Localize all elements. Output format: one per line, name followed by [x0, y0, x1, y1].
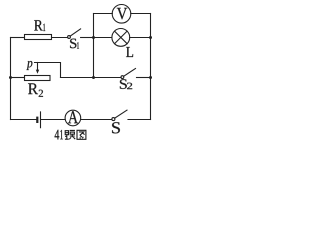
switch S1 pivot — [68, 36, 71, 39]
label V (voltmeter) — [117, 8, 127, 19]
wire battery negative to R1 (top-left horizontal) — [11, 37, 25, 39]
wire battery to ammeter — [41, 119, 66, 121]
lamp L circle — [112, 29, 130, 47]
label S (bottom switch) — [112, 122, 120, 133]
wire rheostat tap: arrow to step corner — [35, 63, 61, 78]
switch S pivot — [112, 118, 115, 121]
label L (lamp) — [126, 47, 133, 57]
node lamp-right junction dot — [149, 36, 152, 39]
lamp L cross — [115, 31, 128, 44]
label A (ammeter) — [68, 111, 78, 123]
battery BT1 long plate — [40, 112, 42, 128]
wire top branch left — [94, 13, 113, 15]
resistor R1 — [25, 35, 52, 40]
caption digit 4 — [55, 130, 60, 140]
wire S1 to node A — [81, 37, 94, 39]
wire node A down to node B — [93, 38, 95, 78]
rheostat R2 body — [25, 76, 51, 81]
caption glyph ti (题) — [65, 130, 75, 139]
ammeter U2 circle — [65, 110, 81, 126]
wire bottom: battery left — [11, 119, 37, 121]
rheostat slider arrow stem — [37, 63, 39, 71]
voltmeter U1 circle — [112, 5, 131, 24]
wire left vertical — [10, 38, 12, 120]
label S1 sub 1 — [77, 42, 79, 48]
node A junction dot — [92, 36, 95, 39]
switch S1 blade — [70, 29, 80, 36]
label p (slider) — [26, 61, 32, 70]
caption glyph tu (图) — [77, 130, 86, 139]
node B junction dot — [92, 76, 95, 79]
rheostat slider arrowhead — [36, 70, 39, 74]
wire ammeter to S — [81, 119, 112, 121]
wire S to right corner — [128, 119, 151, 121]
node S2-right junction dot — [149, 76, 152, 79]
wire node B horizontal to S2 — [61, 77, 122, 79]
wire top branch right — [131, 13, 151, 15]
caption digit 1 — [60, 130, 63, 139]
wire lamp to right vertical — [130, 37, 151, 39]
label R1 R — [34, 20, 43, 30]
label R2 R — [28, 83, 38, 94]
label S2 S — [120, 79, 127, 89]
label R1 sub 1 — [43, 24, 45, 31]
wire S2 to right vertical — [137, 77, 151, 79]
wire right vertical — [150, 14, 152, 120]
wire node A to lamp — [94, 37, 112, 39]
label S1 S — [70, 39, 76, 49]
switch S2 pivot — [121, 76, 124, 79]
wire node A up to voltmeter branch — [93, 14, 95, 38]
switch S2 blade — [124, 69, 136, 77]
wire left vertical to R2 — [11, 77, 25, 79]
label R2 sub 2 — [39, 90, 43, 97]
node R2-left junction dot — [9, 76, 12, 79]
battery BT1 short thick plate — [36, 117, 38, 123]
wire R1 to S1 — [52, 37, 68, 39]
switch S blade — [115, 110, 127, 118]
label S2 sub 2 — [127, 83, 132, 89]
